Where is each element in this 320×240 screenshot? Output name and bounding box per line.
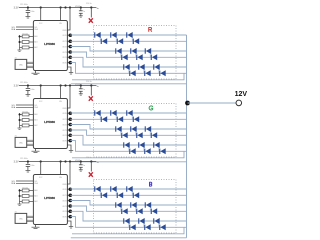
svg-text:12V: 12V (235, 91, 248, 98)
node: 12V tap junction (185, 101, 190, 106)
driver block 3 (blue channel) (11, 157, 186, 238)
wire: junction to 12V terminal (188, 102, 236, 104)
driver block 1 (red channel) (11, 3, 186, 84)
driver block 2 (green channel) (11, 81, 186, 162)
label G (149, 106, 153, 110)
terminal circle 12V (236, 100, 242, 106)
label B (150, 182, 152, 186)
wire: 12V vertical bus (186, 35, 188, 238)
label R (149, 28, 152, 32)
